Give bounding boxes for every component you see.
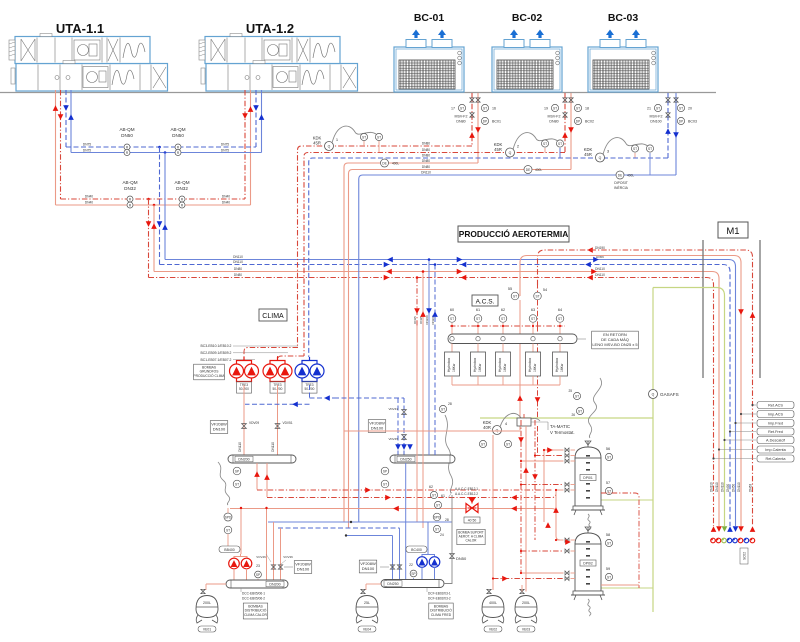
pipe drop hot solid	[153, 205, 155, 272]
svg-text:62: 62	[501, 308, 505, 312]
svg-text:ST: ST	[441, 407, 445, 411]
arrows tank network	[532, 474, 538, 480]
pipe ACS hot return down	[537, 300, 539, 326]
label TRES 50-200 x3	[237, 382, 252, 393]
svg-text:26: 26	[571, 413, 575, 417]
svg-text:VE04: VE04	[363, 628, 371, 632]
valve VDV09	[242, 424, 247, 429]
svg-text:DE: DE	[382, 161, 386, 165]
sensors under header DN250	[381, 467, 389, 475]
label VF208W DN100 center	[368, 420, 385, 433]
pipe UTA-1.1 cold drop solid	[70, 90, 72, 153]
svg-text:DN100: DN100	[213, 426, 226, 431]
svg-text:CLIMA: CLIMA	[262, 313, 284, 320]
pipe BC01 return dashdot	[471, 93, 473, 146]
arrow blue up UTA-1.2	[259, 114, 265, 120]
svg-text:23: 23	[256, 564, 260, 568]
pipe CLIMA blue dashed row2	[245, 403, 310, 405]
pipe ACS hot supply down	[519, 300, 521, 326]
pipe CLIMA supply dashdot row2	[278, 356, 305, 360]
vessel VE01	[206, 583, 226, 585]
svg-text:DP: DP	[483, 119, 487, 123]
pipe hydrobox return collector	[452, 384, 560, 386]
pipe UTA-1.1 hot return drop	[60, 90, 62, 199]
svg-text:ST: ST	[558, 142, 562, 146]
svg-text:SPD: SPD	[225, 515, 232, 519]
svg-text:ST: ST	[679, 106, 683, 110]
svg-text:DN200: DN200	[238, 458, 249, 462]
svg-text:BB400: BB400	[224, 548, 235, 552]
svg-text:VDV51: VDV51	[283, 421, 293, 425]
floor baseline	[0, 92, 716, 94]
svg-text:DN75: DN75	[221, 143, 229, 147]
pipe UTA-1.2 cold drop dashed	[255, 90, 257, 147]
svg-text:61: 61	[441, 494, 445, 498]
svg-text:DN110: DN110	[233, 255, 243, 259]
pipe KDK4 down to VE02	[492, 435, 494, 590]
svg-text:CLIMA FRED: CLIMA FRED	[431, 613, 452, 617]
pipe main cold row dashed	[309, 158, 668, 357]
svg-text:DN200: DN200	[269, 583, 280, 587]
title CLIMA	[259, 309, 287, 321]
svg-text:Hydrobox: Hydrobox	[498, 358, 502, 372]
svg-text:60: 60	[450, 308, 454, 312]
svg-text:Imp.ACS: Imp.ACS	[768, 413, 784, 417]
buffer tank DPI02	[571, 527, 605, 600]
header DN200 lower-left	[226, 580, 288, 588]
pipes header1 down to hot rows	[256, 463, 258, 490]
valves BC02	[563, 98, 567, 102]
meter GASAFS	[649, 390, 658, 399]
svg-text:63: 63	[531, 308, 535, 312]
svg-text:28: 28	[445, 518, 449, 522]
svg-text:SC02: SC02	[743, 552, 747, 560]
pipe UTA-1.1 cold drop dashed	[65, 90, 67, 147]
pipe CLIMA supply dashdot row1	[244, 348, 298, 358]
svg-text:64: 64	[558, 308, 562, 312]
riser drain circles	[711, 538, 716, 543]
svg-text:17: 17	[451, 107, 455, 111]
svg-text:ST: ST	[607, 575, 611, 579]
pipe hot header dashdot DN40	[61, 198, 246, 200]
svg-text:18: 18	[585, 107, 589, 111]
pipe main cold row solid	[359, 175, 676, 522]
svg-text:DN110: DN110	[238, 442, 242, 452]
pipe main hot row3 salmon	[344, 163, 478, 522]
svg-text:ST: ST	[460, 106, 464, 110]
sensor circles BC03	[654, 104, 661, 111]
svg-text:ST: ST	[481, 442, 485, 446]
svg-text:DN100: DN100	[297, 566, 310, 571]
valve AB-QM DN50 no.1	[124, 144, 130, 150]
svg-text:DN250: DN250	[400, 458, 411, 462]
arrows BC01	[469, 132, 475, 138]
service labels right	[753, 404, 757, 406]
svg-text:21: 21	[647, 107, 651, 111]
svg-text:61: 61	[476, 308, 480, 312]
pipe CLIMA blue pump drop	[309, 385, 311, 398]
svg-text:DE: DE	[526, 168, 530, 172]
sensors under header1	[233, 467, 241, 475]
riser mid arrows	[738, 309, 744, 315]
svg-text:400L: 400L	[392, 162, 399, 166]
svg-text:DN190: DN190	[595, 246, 605, 250]
pump group CLIMA red 1	[237, 361, 252, 365]
svg-text:ST: ST	[377, 135, 381, 139]
svg-text:PRODUCCIÓ AEROTERMIA: PRODUCCIÓ AEROTERMIA	[459, 228, 569, 239]
svg-text:400L: 400L	[535, 168, 542, 172]
svg-text:SP: SP	[411, 572, 415, 576]
svg-text:Q: Q	[509, 151, 512, 155]
svg-text:62: 62	[429, 485, 433, 489]
label VF208W DN100 left	[210, 421, 227, 434]
svg-text:BC02: BC02	[585, 120, 594, 124]
svg-text:MSV-F2: MSV-F2	[548, 115, 561, 119]
label BOMBA SUPORT	[457, 529, 485, 544]
heat pump unit BC-02	[492, 30, 562, 93]
svg-text:DN50: DN50	[172, 133, 184, 138]
heat pump unit BC-01	[394, 30, 464, 93]
arrows trunk mid	[387, 257, 393, 263]
svg-text:DN100: DN100	[650, 120, 661, 124]
svg-text:ST: ST	[501, 317, 505, 321]
svg-text:SP: SP	[235, 469, 239, 473]
pipes fred pumps to header	[421, 567, 423, 579]
pump group CLIMA red 2	[270, 361, 285, 365]
svg-text:ST: ST	[576, 106, 580, 110]
svg-text:A.A.C.C-EB12.2: A.A.C.C-EB12.2	[455, 492, 478, 496]
svg-text:Hydrobox: Hydrobox	[473, 358, 477, 372]
valve DN50	[450, 554, 455, 559]
svg-text:ST: ST	[506, 442, 510, 446]
svg-text:DN110: DN110	[595, 267, 605, 271]
svg-text:DN32: DN32	[124, 186, 136, 191]
pipe hot dist row1 dashdot	[257, 489, 552, 491]
riser arrows bottom	[711, 526, 717, 532]
svg-text:DISTRIBUCIÓ: DISTRIBUCIÓ	[245, 608, 267, 613]
pump clima calor 1	[229, 558, 240, 569]
air handling unit UTA-1.2	[199, 34, 358, 92]
svg-text:GASAFS: GASAFS	[660, 392, 679, 397]
arrow red up UTA-1.2	[248, 106, 254, 112]
svg-text:200L: 200L	[203, 601, 211, 605]
svg-text:20: 20	[688, 107, 692, 111]
junction dots ACS risers	[416, 276, 419, 279]
valve AB-QM DN50 no.2	[175, 144, 181, 150]
sensor ST 54	[534, 292, 542, 300]
svg-text:MSV-F2: MSV-F2	[455, 115, 468, 119]
label BOMBAS GRUNDFOS	[194, 364, 225, 380]
svg-text:DN40: DN40	[85, 195, 93, 199]
risers DN200 into header	[428, 345, 430, 455]
svg-text:Ret.Fred: Ret.Fred	[768, 430, 783, 434]
svg-text:40R: 40R	[483, 425, 491, 430]
svg-text:DN100: DN100	[362, 566, 375, 571]
pipe BC03 return dashed blue	[667, 93, 669, 158]
svg-text:VE01: VE01	[203, 628, 211, 632]
svg-text:28: 28	[448, 402, 452, 406]
pipe ACS hot pair down to TA-MATIC	[519, 326, 521, 430]
svg-text:AB-QM: AB-QM	[170, 127, 185, 132]
svg-text:DN80: DN80	[234, 273, 242, 277]
svg-text:DCC-EB05/06-2: DCC-EB05/06-2	[242, 597, 265, 601]
vessel VE02 400L	[487, 589, 491, 593]
pipe drop cold solid	[164, 153, 166, 260]
svg-text:ST: ST	[575, 394, 579, 398]
svg-text:DN110: DN110	[715, 482, 719, 492]
svg-text:BC400: BC400	[411, 548, 422, 552]
svg-text:Imp.Fred: Imp.Fred	[768, 422, 783, 426]
svg-text:DN25: DN25	[419, 316, 423, 324]
svg-text:56: 56	[606, 447, 610, 451]
pipe gas tank2 stub	[601, 587, 653, 589]
svg-text:ST: ST	[432, 493, 436, 497]
svg-text:Hydrobox: Hydrobox	[555, 358, 559, 372]
svg-text:Q: Q	[652, 393, 655, 397]
tank1 inlet rows	[544, 449, 564, 451]
svg-text:59: 59	[606, 567, 610, 571]
svg-text:DCF-EB02/03-1: DCF-EB02/03-1	[428, 592, 451, 596]
junction dots AB-QM	[147, 198, 150, 201]
svg-text:16Kw: 16Kw	[503, 363, 507, 372]
arrow red up UTA-1.1	[53, 105, 59, 111]
pipes pumps to header	[233, 569, 235, 580]
svg-text:DN110: DN110	[271, 442, 275, 452]
svg-text:25: 25	[568, 389, 572, 393]
svg-text:SP: SP	[383, 469, 387, 473]
header DN200 upper-left	[228, 455, 296, 463]
vessel VE03 200L	[520, 589, 524, 593]
pipe main hot row2 dashdot	[304, 153, 565, 357]
cold risers into header fred	[392, 536, 394, 580]
pipe hot header solid DN40	[56, 204, 251, 206]
flex hose under tank2	[588, 599, 591, 616]
valve 3-way red	[466, 504, 478, 513]
svg-text:DN25: DN25	[413, 316, 417, 324]
title ACS	[472, 295, 498, 306]
pipe drop cold dashed	[159, 147, 161, 265]
svg-text:DN90: DN90	[726, 484, 730, 492]
salmon risers through	[416, 326, 418, 522]
svg-text:SPD: SPD	[434, 515, 441, 519]
svg-text:ST: ST	[543, 142, 547, 146]
arrow red down UTA-1.1	[58, 114, 64, 120]
svg-text:DN80: DN80	[422, 148, 430, 152]
flex hose left with sensors	[218, 462, 230, 505]
arrow blue down UTA-1.2	[253, 105, 259, 111]
svg-text:VE03: VE03	[522, 628, 530, 632]
arrows into header DN250	[395, 444, 401, 450]
pipe cold header solid DN75	[71, 152, 262, 154]
svg-text:UTA-1.2: UTA-1.2	[246, 21, 294, 36]
svg-text:16Kw: 16Kw	[452, 363, 456, 372]
svg-text:DN80: DN80	[234, 267, 242, 271]
pipe gas line vertical	[652, 288, 654, 390]
svg-text:400L: 400L	[489, 601, 497, 605]
svg-text:DN110: DN110	[721, 482, 725, 492]
svg-text:CLIMA CALOR: CLIMA CALOR	[244, 613, 267, 617]
svg-text:16Kw: 16Kw	[560, 363, 564, 372]
svg-text:55: 55	[508, 287, 512, 291]
svg-text:BC-03: BC-03	[608, 12, 639, 24]
arrows ACS risers	[414, 308, 420, 314]
svg-text:TA-MATIC: TA-MATIC	[550, 424, 570, 429]
arrows on center drops	[146, 221, 152, 227]
svg-text:BC1-EB07.1/EB07.2: BC1-EB07.1/EB07.2	[201, 358, 232, 362]
svg-text:BC03: BC03	[688, 120, 697, 124]
svg-text:24: 24	[440, 533, 444, 537]
pipe UTA-1.1 hot supply drop	[55, 90, 57, 205]
svg-text:AB-QM: AB-QM	[174, 180, 189, 185]
svg-text:ST: ST	[513, 294, 517, 298]
arrows BC02	[562, 132, 568, 138]
shaft wall left	[702, 240, 704, 378]
svg-text:DN80: DN80	[549, 120, 558, 124]
pipe gas line top run to shaft	[653, 288, 725, 527]
svg-text:ST: ST	[578, 409, 582, 413]
pipe cold row y522	[268, 521, 452, 523]
svg-text:ST: ST	[531, 317, 535, 321]
cold riser center from upper header	[405, 463, 407, 579]
svg-text:DCC-EB05/06-1: DCC-EB05/06-1	[242, 592, 265, 596]
svg-text:DN80: DN80	[422, 159, 430, 163]
svg-text:DIPOSIT: DIPOSIT	[614, 181, 628, 185]
vessel VE04	[366, 583, 381, 585]
sensor ST 28 with hose	[439, 405, 446, 412]
label DPI01	[580, 475, 596, 481]
label VF208W bottom-right	[359, 560, 376, 573]
svg-text:DISTRIBUCIÓ: DISTRIBUCIÓ	[430, 608, 452, 613]
svg-text:16Kw: 16Kw	[478, 363, 482, 372]
svg-text:45R: 45R	[584, 152, 592, 157]
expansion DE 400L diposit inercia	[616, 171, 624, 179]
pump clima fred 1	[417, 557, 428, 568]
pipe UTA-1.2 hot return drop	[244, 90, 246, 199]
svg-text:40 50: 40 50	[468, 519, 477, 523]
pipe main hot row1 dashdot	[298, 146, 473, 348]
pipe BC01 supply solid	[477, 93, 479, 163]
svg-text:ST: ST	[483, 106, 487, 110]
flex hose under tank1	[588, 514, 591, 530]
svg-text:DN80: DN80	[422, 154, 430, 158]
svg-text:ST: ST	[633, 147, 637, 151]
pipe trunk cold solid DN110	[165, 260, 736, 527]
svg-text:ST: ST	[656, 106, 660, 110]
svg-text:DPI01: DPI01	[583, 476, 593, 480]
svg-text:DN110: DN110	[737, 482, 741, 492]
svg-text:INÈRCIA: INÈRCIA	[614, 185, 628, 190]
svg-text:BC-01: BC-01	[414, 12, 445, 24]
pump clima fred 2	[429, 557, 440, 568]
pipe BC02 supply solmon	[570, 93, 572, 170]
svg-text:DN32: DN32	[176, 186, 188, 191]
svg-text:DP: DP	[679, 119, 683, 123]
pipe feed to fred pumps	[427, 522, 429, 552]
arrow blue down UTA-1.1	[63, 105, 69, 111]
arrow blue up UTA-1.1	[68, 114, 74, 120]
svg-text:DP: DP	[576, 119, 580, 123]
svg-text:DN50: DN50	[732, 484, 736, 492]
svg-text:Q: Q	[599, 156, 602, 160]
label M1	[718, 222, 748, 238]
svg-text:DN80: DN80	[456, 120, 465, 124]
svg-text:LENO MSV-BO DN25 x 5: LENO MSV-BO DN25 x 5	[592, 342, 638, 347]
svg-text:ST: ST	[383, 482, 387, 486]
sensor circles BC01	[458, 104, 465, 111]
hydrobox units x5	[451, 344, 453, 353]
shaft wall right	[759, 240, 761, 378]
svg-text:DN75: DN75	[221, 149, 229, 153]
label DPI02	[580, 560, 596, 566]
label SC02	[740, 548, 748, 564]
svg-text:200L: 200L	[522, 601, 530, 605]
pipe cold row y528	[278, 527, 400, 529]
label BOMBAS DISTRIBUCIO CLIMA FRED	[429, 603, 453, 619]
svg-text:A.A.C.C-EB12.1: A.A.C.C-EB12.1	[455, 487, 478, 491]
svg-text:ST: ST	[607, 541, 611, 545]
svg-text:Hydrobox: Hydrobox	[528, 358, 532, 372]
valved risers into header	[266, 508, 268, 580]
expansion DE 400L on row4	[524, 166, 532, 174]
pipe CLIMA red pump drops to header	[243, 385, 245, 455]
svg-text:22: 22	[409, 563, 413, 567]
svg-text:BC2-EB09.1/EB09.2: BC2-EB09.1/EB09.2	[201, 351, 232, 355]
svg-text:DN110: DN110	[421, 171, 431, 175]
label 40-50	[464, 517, 480, 523]
svg-text:SP: SP	[256, 573, 260, 577]
svg-text:16Kw: 16Kw	[533, 363, 537, 372]
pipe row y431 salmon	[344, 430, 521, 432]
expansion DE 400L on row3	[381, 159, 389, 167]
header DN250 upper-center	[390, 455, 455, 463]
svg-text:BC-02: BC-02	[512, 12, 543, 24]
pump group CLIMA blue	[302, 361, 317, 365]
bypass over tank1 to right vertical	[601, 493, 639, 588]
svg-text:DN80: DN80	[422, 142, 430, 146]
label BB400	[219, 546, 240, 553]
svg-text:ST: ST	[648, 147, 652, 151]
svg-text:ST: ST	[362, 135, 366, 139]
pipe gas line to TA-MATIC	[480, 417, 653, 419]
svg-text:DPI02: DPI02	[583, 562, 593, 566]
svg-text:DN75: DN75	[83, 143, 91, 147]
title PRODUCCIO AEROTERMIA	[458, 226, 569, 242]
svg-text:ST: ST	[435, 527, 439, 531]
pump clima calor 2	[241, 558, 252, 569]
svg-text:DCF-EB02/03-2: DCF-EB02/03-2	[428, 597, 451, 601]
pipe main hot row4 salmon	[349, 170, 572, 529]
svg-text:AB-QM: AB-QM	[119, 127, 134, 132]
svg-text:25L: 25L	[364, 601, 370, 605]
pipe hot dist row3 salmon	[230, 509, 560, 541]
label VF208W bottom-left	[294, 561, 311, 574]
svg-text:DN80: DN80	[422, 165, 430, 169]
svg-text:ST: ST	[450, 317, 454, 321]
svg-text:19: 19	[544, 107, 548, 111]
svg-text:Ret.ACS: Ret.ACS	[768, 404, 783, 408]
svg-text:Ret.Calenta: Ret.Calenta	[765, 457, 786, 461]
svg-text:VDV45: VDV45	[388, 437, 398, 441]
svg-text:ST: ST	[226, 528, 230, 532]
ACS manifold numbered valves	[450, 325, 565, 327]
svg-text:ST: ST	[535, 294, 539, 298]
svg-text:DN40: DN40	[222, 195, 230, 199]
svg-text:UTA-1.1: UTA-1.1	[56, 21, 104, 36]
svg-text:MSV-F2: MSV-F2	[650, 115, 663, 119]
svg-text:ST: ST	[235, 482, 239, 486]
svg-text:ST: ST	[558, 317, 562, 321]
pipe TA-MATIC down to VE03	[525, 426, 527, 592]
